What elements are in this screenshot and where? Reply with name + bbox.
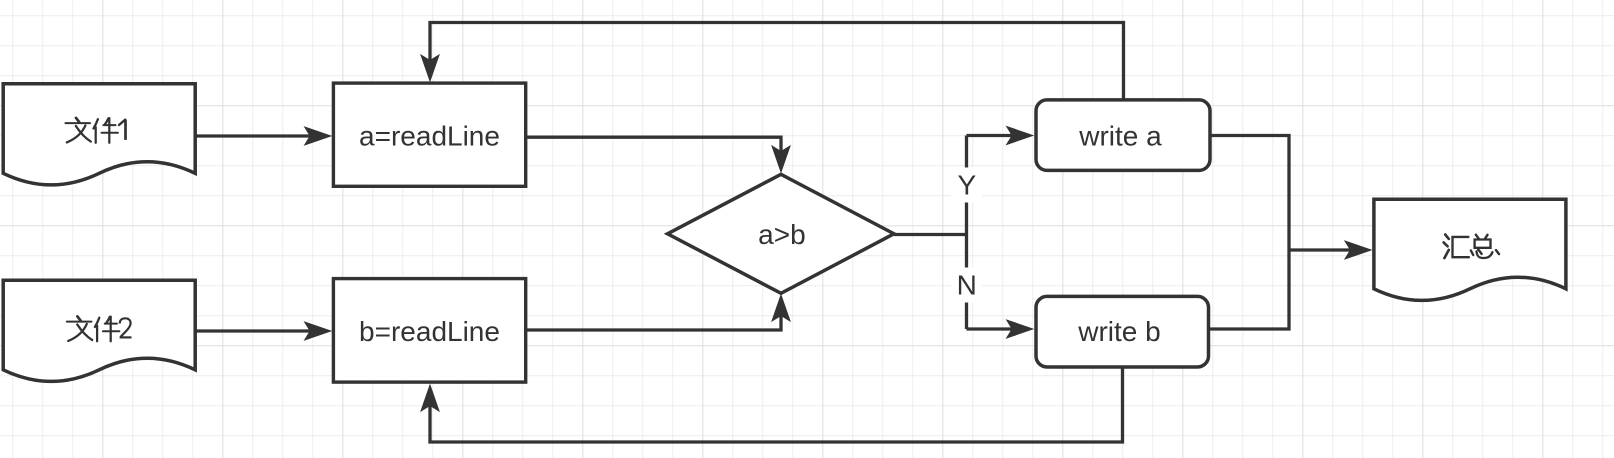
svg-text:write a: write a [1078, 120, 1162, 151]
edge diamond to Y/N split [894, 136, 968, 330]
edge write b to merge [1209, 250, 1290, 329]
process write b [1036, 296, 1209, 367]
svg-text:N: N [957, 269, 977, 300]
edge b=readLine to diamond bottom [526, 295, 790, 330]
process a=readLine [333, 83, 525, 186]
svg-text:b=readLine: b=readLine [359, 316, 500, 347]
edge write a to merge [1210, 136, 1289, 251]
edge 文件1 to a=readLine [195, 127, 331, 145]
document 汇总 [1374, 199, 1566, 300]
edge merge into 汇总 [1289, 241, 1371, 259]
label 文件1 [66, 118, 126, 143]
document 文件2 [3, 280, 195, 381]
edge loop write b back to b=readLine [421, 367, 1123, 442]
decision a>b [668, 174, 895, 293]
svg-text:Y: Y [957, 169, 976, 200]
process write a [1036, 100, 1210, 170]
edge a=readLine to diamond top [526, 137, 790, 172]
label Y [951, 168, 982, 203]
label N [951, 268, 982, 303]
svg-text:a=readLine: a=readLine [359, 120, 500, 151]
edge Y branch into write a [967, 127, 1033, 145]
process b=readLine [333, 279, 525, 383]
edge 文件2 to b=readLine [195, 322, 331, 340]
label 文件2 [67, 316, 132, 341]
edge N branch into write b [967, 320, 1033, 338]
document 文件1 [3, 84, 195, 185]
label 汇总 [1444, 235, 1499, 259]
edge loop write a back to a=readLine [421, 23, 1124, 100]
svg-text:write b: write b [1077, 316, 1160, 347]
svg-text:a>b: a>b [758, 219, 806, 250]
